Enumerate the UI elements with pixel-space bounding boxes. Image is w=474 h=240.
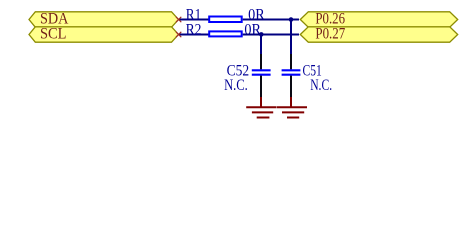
wire C51 branch vertical <box>290 20 292 57</box>
no-ERC cross at SDA port tip <box>176 17 181 22</box>
pin C51 top stub <box>290 54 292 69</box>
svg-text:0R: 0R <box>244 21 261 38</box>
port SCL <box>29 25 179 42</box>
svg-text:R2: R2 <box>186 21 202 38</box>
wire C52 branch vertical <box>260 35 262 57</box>
junction dot on SCL wire at C52 branch <box>259 32 264 37</box>
resistor R2 <box>186 21 262 38</box>
capacitor C51 <box>282 63 333 94</box>
wire SCL to R2 <box>179 34 210 36</box>
pin C52 top stub <box>260 54 262 69</box>
no-ERC cross at SCL port tip <box>176 32 181 37</box>
ground GND1 <box>246 97 276 118</box>
resistor R1 <box>186 6 265 23</box>
svg-text:N.C.: N.C. <box>224 77 248 94</box>
port SDA <box>29 10 179 27</box>
wire R1 to P0.26 <box>243 19 299 21</box>
svg-text:N.C.: N.C. <box>310 77 332 94</box>
wire R2 to P0.27 <box>243 34 299 36</box>
port P0.27 <box>300 25 457 42</box>
junction dot on SDA wire at C51 branch <box>289 17 294 22</box>
wire SDA to R1 <box>179 19 210 21</box>
svg-text:P0.27: P0.27 <box>315 25 345 42</box>
pin C51 bottom stub <box>290 76 292 98</box>
port P0.26 <box>300 10 457 27</box>
capacitor C52 <box>224 63 271 94</box>
pin C52 bottom stub <box>260 76 262 98</box>
ground GND2 <box>277 97 307 118</box>
svg-text:SCL: SCL <box>40 25 67 42</box>
